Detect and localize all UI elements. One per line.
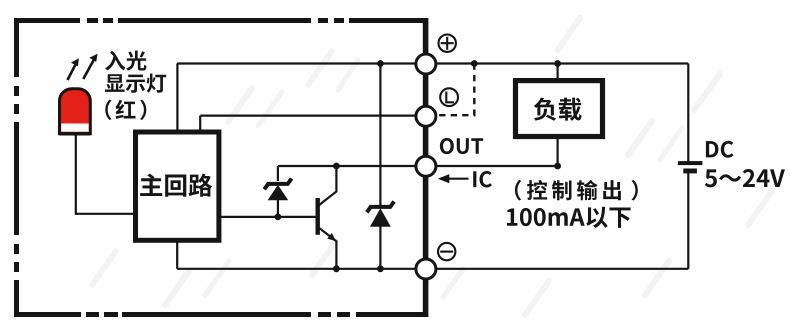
LED indicator body (red) [60, 89, 91, 134]
label: OUT [440, 138, 483, 154]
wire: 0V bottom rail [177, 268, 688, 270]
wire: load box bottom to OUT wire [556, 138, 558, 166]
label: 负载 (load) [534, 98, 582, 121]
wire: zener D1 top bend from OUT rail [277, 166, 279, 181]
LED base line [60, 132, 91, 135]
wire: zener D2 from +V rail down [379, 64, 381, 206]
wire: zener D1 anode to base wire [277, 200, 279, 217]
load box 负载 [516, 81, 603, 137]
transistor Q1 collector [319, 166, 337, 206]
symbol: minus in circle [438, 243, 455, 260]
terminal: L [416, 106, 436, 126]
junction: zener D2 on 0V rail [377, 265, 384, 272]
label: 主回路 (main circuit) [140, 174, 212, 197]
junction: load bottom on OUT wire [554, 163, 561, 170]
zener diode D2 triangle (anode, pointing up) [370, 208, 391, 227]
terminal strip: thick solid right bar [423, 18, 429, 317]
transistor Q1 emitter arrowhead [327, 233, 336, 241]
battery negative plate (short) [683, 169, 697, 174]
terminal: OUT [416, 156, 436, 176]
wire: main-circuit to +V rail vertical [176, 64, 178, 133]
wire: battery negative to 0V rail [687, 173, 689, 269]
wire: +V rail (top horizontal) [177, 62, 688, 64]
dashed optional link from +V to L terminal [438, 64, 475, 116]
light arrow 1 [68, 63, 77, 81]
IC arrowhead [438, 174, 450, 183]
wire: load box top to +V rail [556, 64, 558, 81]
terminal: 0V [416, 259, 436, 279]
label: 5～24V [705, 169, 785, 187]
junction: emitter on 0V rail [333, 265, 340, 272]
terminal: +V [416, 54, 436, 74]
label: （控制输出） (control output) [515, 180, 638, 201]
zener diode D1 cathode bar [264, 179, 291, 190]
wire: OUT rail (collector to OUT terminal and load) [278, 165, 558, 167]
wire: L rail horizontal [200, 114, 426, 116]
IC arrow line [447, 178, 469, 180]
symbol: plus in circle [439, 35, 456, 52]
wire: main-circuit bottom to 0V rail [176, 240, 178, 269]
sensor enclosure dashed border: bottom edge [14, 312, 425, 317]
zener diode D1 triangle (anode, pointing up) [268, 185, 289, 200]
sensor enclosure dashed border: top edge [14, 18, 425, 23]
light arrow 2 [83, 59, 94, 80]
main circuit box 主回路 [136, 132, 219, 240]
wire: zener D2 anode to 0V rail [379, 226, 381, 269]
wire: base wire from main circuit to transistor [220, 216, 316, 218]
label: IC [473, 171, 492, 188]
zener diode D2 cathode bar [367, 202, 394, 213]
battery positive plate (long) [678, 161, 703, 165]
LED white band [61, 124, 88, 132]
label: 100mA以下 (100mA or less) [507, 207, 631, 228]
junction: zener D2 on +V rail [377, 60, 384, 67]
symbol: L in circle [440, 88, 458, 106]
label: 入光 (light incident) [105, 51, 146, 71]
transistor Q1 base bar [316, 198, 320, 235]
junction: dashed link on +V rail [471, 60, 478, 67]
junction: zener D1 on base wire [275, 214, 282, 221]
wire: main-circuit to L rail vertical [199, 116, 201, 132]
label: DC [706, 141, 734, 158]
label: 显示灯 (indicator lamp) [105, 74, 166, 93]
junction: collector on OUT rail [333, 163, 340, 170]
junction: load on +V rail [554, 60, 561, 67]
label: （红） (red) [105, 100, 146, 120]
sensor enclosure dashed border: left edge [14, 18, 19, 317]
transistor Q1 emitter [319, 228, 337, 269]
wire: LED cathode down and into main circuit [76, 135, 134, 214]
wire: battery positive drop from +V rail [687, 64, 689, 162]
